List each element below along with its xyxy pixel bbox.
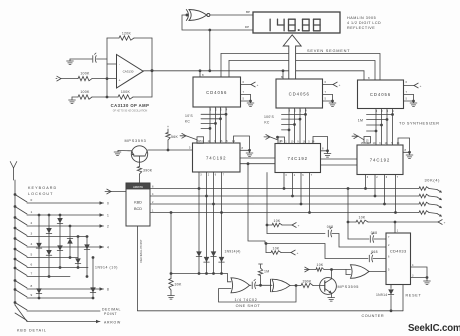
- svg-text:068: 068: [327, 225, 334, 229]
- terminal arrow key 8: [100, 287, 110, 291]
- terminal slant arrow line 3: [437, 205, 442, 208]
- pin numbers U1 bottom: [210, 108, 228, 111]
- display LCD module HAMLIN 3905: [253, 12, 340, 33]
- diode matrix c4d1: [67, 238, 73, 243]
- wire key row .: [27, 310, 100, 312]
- wire pin8 riser U4: [282, 69, 285, 79]
- terminal arrow U2 pin6: [333, 82, 341, 87]
- terminal keyboard lockout arrow: [10, 162, 17, 181]
- wire key row 2: [27, 225, 104, 227]
- label COUNTER: [362, 314, 385, 318]
- wire bottom rail: [72, 96, 152, 98]
- svg-text:CD4056: CD4056: [370, 92, 391, 97]
- wire strobe vertical 4: [220, 213, 223, 275]
- terminal arrow U6 load: [180, 133, 197, 139]
- resistor 30K line 4: [419, 211, 429, 215]
- label DECIMAL POINT row: [102, 308, 121, 316]
- wire U6 pin14 loop: [234, 136, 250, 150]
- pin numbers U6 bottom: [200, 174, 225, 177]
- transistor Q2 MPS3595: [320, 278, 337, 295]
- svg-text:068: 068: [371, 250, 378, 254]
- wire key row 7: [27, 276, 70, 278]
- wire output feedback vertical: [151, 69, 154, 97]
- IC U7 74C192: [275, 144, 321, 173]
- resistor R11 10K clock: [356, 215, 368, 223]
- svg-text:DP: DP: [245, 25, 249, 29]
- wire strobe vertical 2: [205, 196, 208, 275]
- svg-text:CD4033: CD4033: [390, 249, 407, 254]
- label SEVEN SEGMENT: [307, 48, 350, 53]
- switch key row 6: [14, 258, 27, 267]
- wire U12 top pin: [394, 222, 396, 233]
- wire 30K riser: [170, 213, 172, 279]
- terminal arrow U1 pin6: [251, 82, 259, 87]
- terminal arrow KBD input: [105, 189, 111, 194]
- svg-text:5: 5: [31, 253, 33, 257]
- seven segment arrow into display: [283, 35, 301, 79]
- wire matrix column 4: [69, 225, 72, 259]
- svg-text:9: 9: [31, 293, 33, 297]
- switch key row 8: [14, 279, 27, 288]
- terminal arrow 10K count: [305, 267, 310, 272]
- svg-text:ONE SHOT: ONE SHOT: [236, 304, 261, 308]
- svg-text:+: +: [339, 83, 341, 87]
- svg-text:1: 1: [31, 210, 33, 214]
- wire BCD bus line 3: [150, 204, 437, 205]
- switch key row 4: [14, 237, 27, 246]
- wire U8 bottom pins to BCD bus: [364, 175, 397, 214]
- svg-text:068: 068: [371, 231, 378, 235]
- switch key row 7: [14, 267, 27, 276]
- wire U1 staircase stubs: [201, 113, 227, 130]
- wire DP line: [182, 15, 253, 30]
- wire feedback right vertical: [151, 38, 153, 71]
- IC U1 CD4056: [193, 77, 241, 107]
- diode matrix c5d1: [75, 258, 81, 263]
- terminal arrow U3 pin6: [414, 83, 422, 88]
- pin numbers U7 top: [279, 141, 315, 144]
- label key 0 left: [31, 198, 33, 202]
- node U6 loop: [248, 149, 251, 152]
- wire counter line: [138, 285, 404, 311]
- svg-text:+: +: [444, 220, 446, 224]
- node gate input: [186, 14, 189, 17]
- switch key row 5: [14, 248, 27, 257]
- svg-text:4 1/2 DIGIT LCD: 4 1/2 DIGIT LCD: [347, 21, 381, 25]
- svg-text:SEVEN SEGMENT: SEVEN SEGMENT: [307, 48, 350, 53]
- switch key row 1: [14, 205, 27, 214]
- svg-text:7: 7: [31, 272, 33, 276]
- watermark SeekIC.com: [408, 323, 460, 334]
- wire KBD input: [111, 191, 126, 193]
- ground U2 right: [329, 100, 336, 107]
- capacitor C8 068: [267, 225, 386, 247]
- svg-text:COUNTER: COUNTER: [362, 314, 385, 318]
- terminal arrow latch: [291, 250, 299, 255]
- svg-text:TO SYNTHESIZER: TO SYNTHESIZER: [399, 121, 440, 125]
- wire U2 pins 7 5 loop: [323, 90, 333, 103]
- resistor R6 56K: [166, 129, 179, 150]
- label MPS3595: [338, 285, 360, 289]
- diode 1N914 strobe 2: [204, 257, 210, 262]
- ground U8 right: [406, 152, 413, 158]
- node U8 loop: [408, 151, 411, 154]
- switch key row .: [14, 301, 27, 310]
- svg-text:390K: 390K: [143, 168, 153, 172]
- node bottom junction: [106, 96, 109, 99]
- svg-text:1N914(4): 1N914(4): [225, 250, 241, 254]
- wire U3 pin6 to terminal: [404, 80, 415, 86]
- label 1/4 74C02: [235, 298, 261, 308]
- pin 8 label U1: [202, 73, 204, 77]
- wire Q2 collector: [330, 268, 333, 279]
- wire op-amp output line C: [143, 70, 364, 72]
- wire matrix column 2: [48, 214, 51, 278]
- terminal slant arrow line 1: [437, 190, 442, 193]
- wire key row 1: [27, 214, 104, 216]
- wire pin8 riser U3: [199, 69, 202, 77]
- keyboard encoder KBD BCD: [126, 183, 150, 226]
- resistor R5 390K: [137, 162, 152, 183]
- resistor R8 1M: [258, 264, 269, 285]
- wire U12 right pins to ground: [411, 267, 429, 281]
- node inverting input vertical: [106, 38, 108, 97]
- svg-text:+: +: [119, 79, 121, 83]
- svg-text:ARROW: ARROW: [104, 321, 121, 325]
- diode matrix c3d2: [57, 245, 63, 250]
- wire clock line: [348, 221, 438, 223]
- wire BCD bus line 2: [150, 196, 437, 197]
- resistor R3 100K lower left: [78, 90, 92, 99]
- node C1 junction: [151, 69, 154, 72]
- wire Q1 collector to U6 pin5: [148, 145, 193, 150]
- label KBD DETAIL: [17, 328, 47, 332]
- wire U2 staircase stubs: [282, 113, 307, 131]
- svg-text:100'S: 100'S: [264, 115, 275, 119]
- capacitor C7 068: [369, 250, 386, 262]
- svg-text:POINT: POINT: [104, 312, 117, 316]
- terminal arrow key 0: [100, 201, 110, 205]
- boxed pin 15 U8: [364, 137, 371, 144]
- resistor R4 100K feedback: [118, 90, 133, 99]
- svg-text:120K: 120K: [122, 31, 132, 35]
- gate U11 OR: [351, 265, 370, 279]
- diode 1N914 strobe 3: [211, 251, 217, 256]
- pin 8 label U3: [368, 76, 370, 80]
- pin numbers U8 bottom: [367, 176, 399, 179]
- node U7 loop: [326, 149, 329, 152]
- svg-text:CA3130: CA3130: [123, 70, 134, 74]
- svg-text:390K: 390K: [302, 279, 312, 283]
- IC U8 74C192: [357, 145, 403, 175]
- svg-text:100K: 100K: [80, 90, 90, 94]
- svg-text:74C192: 74C192: [370, 158, 390, 163]
- label 1N914 reset: [376, 293, 388, 297]
- terminal arrow key 4: [100, 245, 110, 249]
- label 1N914(10): [95, 266, 118, 270]
- label key 6 left: [31, 263, 33, 267]
- ground lower left: [69, 97, 76, 104]
- IC U6 74C192: [193, 143, 241, 172]
- wire U1 pin6 to terminal: [241, 80, 252, 85]
- wire BP line: [210, 10, 253, 15]
- node BCD4 to 30K riser: [170, 211, 173, 214]
- wire U2 bottom pins: [289, 108, 306, 144]
- svg-text:KBD: KBD: [134, 201, 142, 205]
- svg-text:KBD DETAIL: KBD DETAIL: [17, 328, 47, 332]
- svg-text:4: 4: [31, 242, 33, 246]
- diode D5 1N914 reset: [388, 285, 394, 311]
- terminal arrow clock: [438, 220, 446, 225]
- wire key row 0: [27, 202, 104, 204]
- ground U3 right: [410, 100, 417, 107]
- svg-text:3: 3: [31, 232, 33, 236]
- svg-text:+: +: [297, 251, 299, 255]
- node 56K to pin5 line: [167, 149, 170, 152]
- label key 3 left: [31, 232, 33, 236]
- resistor R2 100K input: [78, 72, 92, 81]
- terminal slant arrow line 4: [437, 214, 442, 217]
- svg-text:74C192: 74C192: [206, 155, 226, 160]
- diode matrix c2d2: [46, 250, 52, 255]
- svg-text:30K(4): 30K(4): [425, 179, 441, 183]
- label KEYBOARD LOCKOUT: [28, 186, 57, 196]
- svg-text:KC: KC: [185, 119, 191, 123]
- resistor R1 120K: [119, 31, 134, 40]
- diode 1N914 strobe 1: [196, 251, 202, 256]
- svg-text:LOCKOUT: LOCKOUT: [28, 192, 54, 196]
- label 30K(4): [425, 179, 441, 183]
- op-amp U1 CA3130: [117, 55, 144, 89]
- svg-text:+: +: [298, 223, 300, 227]
- wire U7 bottom pins to BCD bus: [283, 173, 311, 214]
- wire U2 pin6 to terminal: [323, 80, 334, 85]
- switch key row 9: [14, 288, 27, 297]
- svg-text:10K: 10K: [274, 219, 281, 223]
- IC U3 CD4056: [358, 80, 404, 109]
- diode matrix c3d1: [57, 218, 63, 223]
- ground U1 right: [247, 100, 254, 107]
- node one-shot cap junction: [259, 284, 262, 287]
- wire key row arrow: [27, 321, 100, 323]
- wire key row 6: [27, 267, 88, 269]
- label 1N914(4): [225, 250, 241, 254]
- svg-text:-: -: [119, 63, 120, 67]
- wire Q1 emitter: [118, 150, 132, 152]
- wire BCD1 to clock riser: [347, 187, 350, 239]
- node A: [106, 77, 109, 80]
- svg-text:8: 8: [31, 284, 33, 288]
- svg-text:SeekIC.com: SeekIC.com: [408, 323, 460, 334]
- svg-text:56K: 56K: [171, 135, 178, 139]
- wire carry U6-U7 lower: [240, 163, 275, 165]
- pin numbers U3 bottom: [376, 110, 395, 113]
- wire U3 staircase stubs: [367, 113, 394, 132]
- svg-text:10K: 10K: [317, 263, 324, 267]
- diode matrix c1d1: [36, 243, 42, 248]
- wire input: [61, 78, 117, 80]
- wire U11 out to CD4033: [369, 271, 386, 273]
- label key 5 left: [31, 253, 33, 257]
- pin numbers U8 top: [361, 142, 400, 145]
- node counter diode: [390, 309, 393, 312]
- label HAMLIN 3905: [347, 16, 381, 30]
- svg-text:2: 2: [107, 224, 109, 228]
- diode matrix c2d1: [46, 228, 52, 233]
- ground 30K: [168, 290, 175, 299]
- capacitor C5 one-shot: [250, 279, 261, 288]
- IC U12 CD4033: [386, 233, 411, 285]
- svg-text:8: 8: [107, 287, 109, 291]
- wire one-shot input rail: [171, 274, 231, 282]
- capacitor C6 068: [348, 231, 386, 242]
- wire matrix column 7: [92, 256, 95, 299]
- wire BCD bus line 4: [150, 213, 437, 214]
- diode 1N914 strobe 4: [219, 257, 225, 262]
- node clock U12: [394, 221, 397, 224]
- node U7 load: [276, 136, 279, 139]
- wire U7 pin11 down: [266, 173, 268, 234]
- pin numbers KBD: [152, 186, 154, 213]
- switch key row arrow: [15, 313, 27, 321]
- svg-text:0: 0: [107, 201, 109, 205]
- svg-text:1: 1: [107, 213, 109, 217]
- svg-text:+: +: [167, 125, 169, 129]
- svg-text:10K: 10K: [359, 215, 366, 219]
- svg-text:1M: 1M: [264, 270, 269, 274]
- wire key row 5: [27, 257, 78, 259]
- wire R9 to Q2 base: [313, 285, 320, 287]
- wire U7 pin14 loop: [313, 137, 328, 151]
- label TO SYNTHESIZER: [399, 121, 440, 125]
- svg-text:1M: 1M: [358, 118, 363, 122]
- svg-text:4: 4: [107, 245, 109, 249]
- wire feedback top rail: [107, 37, 152, 39]
- node one-shot input rail: [170, 272, 173, 275]
- svg-text:+: +: [257, 83, 259, 87]
- svg-text:HAMLIN 3905: HAMLIN 3905: [347, 16, 376, 20]
- wire matrix column 6: [86, 235, 89, 278]
- wire DP signal vertical: [137, 226, 139, 311]
- label RESET: [406, 293, 422, 297]
- terminal arrow key 2: [100, 224, 110, 228]
- boxed pin 15 U7: [278, 137, 285, 144]
- wire carry U7-U8 lower: [321, 164, 358, 166]
- svg-text:2: 2: [31, 221, 33, 225]
- pin 8 label U2: [281, 75, 283, 79]
- wire U6 bottom pins to BCD bus: [198, 172, 223, 214]
- svg-text:RESET: RESET: [406, 293, 422, 297]
- node DP riser junction: [208, 29, 211, 32]
- ground for input capacitor: [67, 59, 74, 65]
- label U3 stub inputs: [358, 118, 363, 122]
- wire keyboard bus: [15, 180, 27, 322]
- wire U3 pins 7 5 loop: [404, 90, 414, 103]
- resistor R12 10K latch: [266, 244, 291, 255]
- svg-text:6: 6: [31, 263, 33, 267]
- switch key row 2: [14, 216, 27, 225]
- gate U10 74C02 OR: [261, 279, 291, 292]
- ground U12 right: [424, 281, 431, 285]
- resistor 30K line 2: [419, 194, 429, 198]
- capacitor C1 input: [70, 53, 107, 62]
- transistor Q1 MPS3593: [131, 146, 147, 162]
- wire gate out to R9: [290, 285, 301, 287]
- svg-text:0: 0: [31, 198, 33, 202]
- pin numbers U12: [388, 229, 414, 277]
- terminal slant arrow line 2: [437, 197, 442, 200]
- wire carry U7-U8 upper: [321, 158, 358, 160]
- svg-text:MPS3595: MPS3595: [338, 285, 360, 289]
- svg-text:ARROW: ARROW: [133, 185, 143, 189]
- gate U9 74C02 OR: [231, 278, 250, 293]
- gate U2 XOR backplane driver: [186, 10, 210, 21]
- resistor R9 390K: [301, 279, 313, 287]
- svg-text:CD4056: CD4056: [206, 90, 227, 95]
- svg-text:+: +: [420, 84, 422, 88]
- diode matrix c7d1: [90, 287, 96, 292]
- wire matrix column 5: [77, 235, 80, 269]
- wire key row 4: [27, 246, 104, 248]
- pin numbers U7 bottom: [285, 174, 313, 177]
- switch key row 0: [14, 193, 27, 202]
- wire bus line B: [229, 61, 375, 81]
- svg-text:OF HZ TO 50 HZ OSCILLATION: OF HZ TO 50 HZ OSCILLATION: [113, 110, 148, 113]
- label key 1 left: [31, 210, 33, 214]
- label key 4 left: [31, 242, 33, 246]
- wire 10K to gate U11: [324, 270, 351, 275]
- switch key row 3: [14, 227, 27, 236]
- wire key row 3: [27, 236, 88, 238]
- wire strobe vertical 1: [198, 189, 201, 275]
- ground Q1 emitter: [114, 151, 121, 156]
- input terminal arrow: [56, 76, 61, 81]
- pin numbers U6 top: [196, 140, 235, 143]
- node latch branch: [265, 242, 268, 245]
- svg-text:BP: BP: [246, 10, 250, 14]
- pin numbers U2 bottom: [289, 109, 308, 112]
- node load branch: [266, 224, 269, 227]
- wire matrix column 1: [38, 214, 41, 300]
- label key 7 left: [31, 272, 33, 276]
- svg-text:1/4 74C02: 1/4 74C02: [235, 298, 258, 302]
- terminal 56K top: [167, 125, 169, 129]
- boxed pin 15 U6: [197, 137, 204, 144]
- svg-text:100K: 100K: [80, 72, 90, 76]
- wire BCD bus line 1: [150, 189, 437, 190]
- wire one-shot feedback: [219, 284, 298, 302]
- svg-text:1N914: 1N914: [376, 293, 388, 297]
- wire carry U6-U7 upper: [240, 157, 275, 159]
- wire DP to output riser: [208, 30, 211, 72]
- svg-text:30K: 30K: [175, 282, 182, 286]
- wire pin8 riser U5: [363, 71, 365, 80]
- ground U6 right: [246, 150, 253, 156]
- resistor 30K line 1: [419, 187, 429, 191]
- diode matrix c6d1: [84, 244, 90, 249]
- svg-text:KC: KC: [264, 120, 270, 124]
- label U2 stub inputs: [264, 115, 275, 124]
- svg-text:74C192: 74C192: [288, 156, 308, 161]
- svg-text:BCD: BCD: [134, 207, 142, 211]
- resistor R10 10K: [309, 263, 324, 271]
- svg-text:1N914 (10): 1N914 (10): [95, 266, 118, 270]
- terminal arrow key 1: [100, 213, 110, 217]
- svg-text:CA3130 OP AMP: CA3130 OP AMP: [111, 103, 150, 108]
- wire U8 pin14 loop: [398, 138, 410, 152]
- ground U7 right: [324, 151, 331, 157]
- label U1 stub inputs: [185, 114, 194, 123]
